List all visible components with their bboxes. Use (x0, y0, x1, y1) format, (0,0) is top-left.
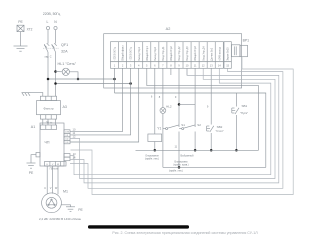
converter A1 PE terminal (36, 153, 40, 157)
terminal circle L (46, 26, 49, 29)
wire SB2 to rail (210, 133, 212, 150)
wire terminal 13 to SB2 (210, 68, 212, 124)
wire HL1 to bus (69, 72, 78, 79)
wire BP1 outer loop (71, 57, 294, 195)
chassis ground at filter (22, 92, 32, 94)
lamp HL1 (62, 68, 69, 75)
filter A3 box (37, 101, 61, 115)
node bus2 left junction (54, 82, 57, 85)
wire terminal 11 to S2 (194, 68, 196, 127)
figure separator bar (88, 225, 189, 228)
wire HL2 to line B (162, 113, 164, 167)
wire U to motor (46, 166, 48, 194)
svg-text:Выход Упр2: Выход Упр2 (154, 46, 157, 60)
node bus1 left junction (47, 78, 50, 81)
svg-text:PE: PE (29, 171, 34, 175)
svg-text:Фильтр: Фильтр (43, 106, 53, 110)
filter A3 output terminals (40, 115, 56, 119)
wire loop terminal 10b to A1 DI3 (70, 68, 279, 183)
svg-text:Общий Упр1: Общий Упр1 (146, 46, 149, 61)
svg-text:L: L (47, 20, 49, 24)
svg-text:PE: PE (18, 20, 23, 24)
svg-text:ВР1: ВР1 (243, 39, 250, 43)
wire W to motor (57, 166, 59, 194)
sensor BP1 body (232, 45, 241, 57)
wire A3 out 1 (42, 119, 44, 125)
wire rail A (136, 149, 259, 151)
button SB1 Start (231, 108, 233, 113)
terminal strip of A2 (111, 42, 224, 62)
node SB1 rail junction (235, 149, 238, 152)
svg-text:220В, 50Гц: 220В, 50Гц (43, 12, 60, 16)
svg-text:(крайн. лев.): (крайн. лев.) (145, 157, 159, 160)
wire terminal 8 stub (170, 68, 172, 75)
controller A2 box (104, 34, 242, 88)
connector XT2 (17, 25, 24, 31)
terminal numbers row (111, 62, 224, 69)
node S2 rail junction (194, 149, 197, 152)
svg-text:ГВ №№: ГВ №№ (50, 168, 59, 171)
wire L QF1 to filter (47, 52, 49, 96)
wire L drop to QF1 (47, 30, 49, 44)
svg-text:2,2 кВт 220/380 В 1430 об/мин: 2,2 кВт 220/380 В 1430 об/мин (39, 217, 81, 221)
svg-text:ЧП: ЧП (45, 141, 50, 145)
converter A1 output terminals U V W PE (45, 162, 67, 167)
ground PE main (14, 45, 28, 47)
wire branch S1 to S2 (179, 103, 195, 105)
node S1 line B junction (178, 166, 181, 169)
wire loop terminal 12 to A1 analog2 (70, 68, 275, 178)
switch S2 (179, 128, 182, 130)
wire terminal 4 to A1 DI3 (70, 68, 139, 142)
svg-text:Выход Упр1: Выход Упр1 (138, 46, 141, 60)
svg-text:U: U (44, 187, 46, 190)
breaker QF1 (44, 44, 48, 52)
converter A1 control terminals COM DI1 DI2 DI3 (64, 130, 70, 134)
wire terminal 6 to Y1 (154, 68, 156, 134)
wire terminal 7 to HL2 (162, 68, 164, 107)
wire XT2 to ground (20, 32, 22, 46)
svg-text:DI2: DI2 (66, 139, 69, 141)
wire A1 PE to ground (31, 155, 36, 163)
wire terminal 3 to A1 DI1 (70, 68, 131, 135)
switch S1 (163, 128, 166, 130)
wire bus N to A2 terminal 3 (56, 83, 131, 85)
svg-text:SB1: SB1 (242, 104, 248, 108)
wire bus L to A2 terminal 1 (48, 78, 115, 80)
svg-text:Общий Упр2: Общий Упр2 (170, 46, 173, 61)
svg-text:"Стоп": "Стоп" (215, 129, 223, 133)
svg-text:Y1: Y1 (157, 127, 161, 131)
svg-text:А3: А3 (63, 105, 67, 109)
svg-text:Датчик Вх1: Датчик Вх1 (210, 47, 213, 61)
svg-text:Рис. 2. Схема электрическая пр: Рис. 2. Схема электрическая принципиальн… (112, 231, 258, 235)
svg-text:(крайн. прав.): (крайн. прав.) (173, 164, 188, 167)
svg-text:COM: COM (65, 132, 70, 134)
wire terminal 5 to rail end (147, 68, 259, 150)
wire chassis to A3 (31, 93, 43, 97)
svg-text:ХТ2: ХТ2 (27, 27, 33, 31)
svg-text:~220В 50Гц: ~220В 50Гц (130, 47, 133, 61)
svg-text:DI3: DI3 (66, 142, 69, 144)
wire N drop to QF1 (55, 30, 57, 44)
button SB2 Stop (206, 126, 208, 131)
wire to SB1 (235, 93, 237, 107)
node SB2 rail junction (210, 149, 213, 152)
svg-text:Экран Вх15: Экран Вх15 (227, 47, 230, 61)
terminal cell 15 (224, 42, 231, 62)
svg-text:+24В выход: +24В выход (218, 47, 221, 61)
wire SB1 to rail (235, 115, 237, 150)
wire terminal 10 stub (186, 68, 188, 75)
wire S2 to rail (194, 132, 196, 151)
converter A1 box (40, 123, 64, 166)
sensor BP1 head (240, 45, 248, 56)
ground PE of motor (66, 206, 75, 208)
converter A1 analog terminals (64, 154, 70, 158)
terminal circle N (54, 26, 57, 29)
lamp HL2 (160, 108, 166, 114)
wire terminal 1 drop (114, 68, 116, 93)
wire terminal1 to SB1 and right (115, 93, 266, 167)
wire S1 to line B (178, 132, 180, 168)
wire terminal 2 to A1 COM (70, 68, 123, 131)
wire line B (163, 166, 266, 168)
wire terminal 9 to S1 (178, 68, 180, 127)
svg-text:QF1: QF1 (61, 43, 68, 47)
wire N to HL1 (56, 71, 63, 73)
svg-text:PE: PE (78, 208, 83, 212)
wire Y1 to rail (154, 142, 156, 151)
svg-text:Вход Упр Д4: Вход Упр Д4 (202, 46, 205, 61)
svg-text:(крайн. лев.): (крайн. лев.) (169, 169, 183, 172)
svg-text:Общий фазы: Общий фазы (122, 45, 125, 60)
node bus1 right junction (113, 78, 116, 81)
node HL1-bus1 junction (77, 78, 80, 81)
svg-text:А1: А1 (31, 125, 35, 129)
svg-text:S2: S2 (197, 123, 201, 127)
svg-text:Общий Упр3: Общий Упр3 (194, 46, 197, 61)
filter A3 input terminals (40, 96, 56, 100)
node S1 branch junction (178, 103, 181, 106)
svg-text:Выбранный: Выбранный (180, 154, 194, 157)
wire A3 out 2 (47, 119, 49, 125)
svg-text:Вход Упр Д3: Вход Упр Д3 (186, 46, 189, 61)
node Y1 rail junction (154, 149, 157, 152)
svg-text:М1: М1 (63, 190, 68, 194)
svg-text:HL2: HL2 (166, 105, 172, 109)
wire V to motor (52, 166, 54, 194)
solenoid Y1 (148, 134, 162, 142)
wire loop terminal 14 to A1 analog1 (70, 68, 271, 174)
ground PE of A1 (27, 162, 36, 164)
converter A1 input terminals (40, 125, 56, 129)
svg-text:DI1: DI1 (66, 135, 69, 137)
svg-text:Вход Упр Д2: Вход Упр Д2 (178, 46, 181, 61)
svg-text:S1: S1 (181, 123, 185, 127)
svg-text:Вход Упр Д1: Вход Упр Д1 (162, 46, 165, 61)
svg-text:HL1 "Сеть": HL1 "Сеть" (58, 62, 77, 66)
svg-text:~220В 50Гц: ~220В 50Гц (114, 47, 117, 61)
svg-text:32А: 32А (61, 50, 68, 54)
wire motor to PE (61, 205, 70, 207)
node junction N-HL1 (54, 70, 57, 73)
svg-text:"Пуск": "Пуск" (240, 111, 248, 115)
wire loop cell15 to A1 right edge (70, 68, 283, 188)
motor M1 (42, 193, 62, 213)
svg-text:А2: А2 (166, 27, 171, 31)
node bus2 right junction (129, 82, 132, 85)
wire N QF1 to filter (55, 52, 57, 96)
wire A3 out 3 (55, 119, 57, 125)
